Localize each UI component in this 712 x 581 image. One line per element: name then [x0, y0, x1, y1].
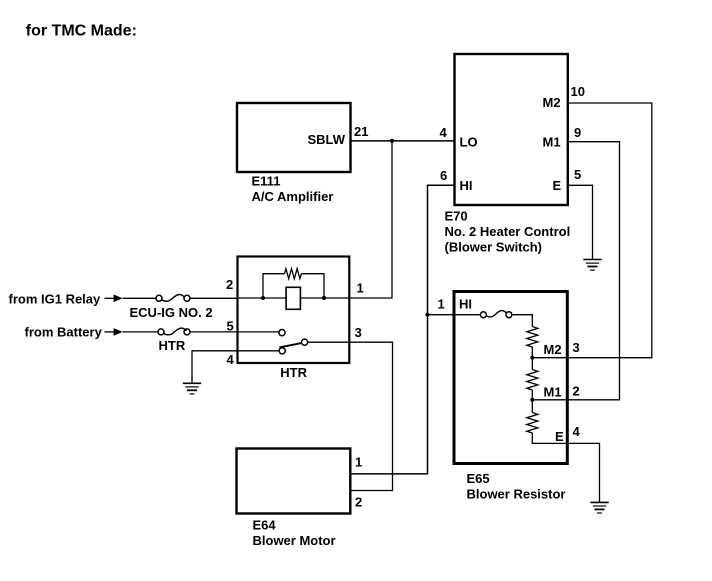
- svg-text:from Battery: from Battery: [25, 324, 103, 339]
- relay coil resistor branch: [263, 274, 324, 298]
- wire relay pin3 to E64 pin2: [308, 342, 393, 490]
- svg-text:SBLW: SBLW: [307, 132, 345, 147]
- svg-text:3: 3: [355, 325, 362, 340]
- svg-text:LO: LO: [460, 134, 478, 149]
- svg-text:Blower Motor: Blower Motor: [253, 533, 336, 548]
- fuse inside E65: [480, 312, 486, 318]
- svg-text:HI: HI: [459, 297, 472, 312]
- resistor R1: [527, 327, 538, 348]
- resistor zigzag in relay: [285, 269, 302, 279]
- connector E65 Blower Resistor box: [454, 292, 567, 464]
- junction node right coil tap: [322, 296, 326, 300]
- ground relay pin4: [183, 383, 201, 394]
- svg-text:HTR: HTR: [159, 338, 186, 353]
- fuse HTR: [158, 329, 164, 335]
- svg-text:ECU-IG NO. 2: ECU-IG NO. 2: [130, 305, 213, 320]
- svg-text:M1: M1: [543, 134, 561, 149]
- svg-text:(Blower Switch): (Blower Switch): [445, 239, 543, 254]
- junction node left coil tap: [261, 296, 265, 300]
- wire SBLW(21) to E70 LO(4): [351, 140, 455, 142]
- svg-text:9: 9: [574, 125, 581, 140]
- svg-text:4: 4: [227, 352, 235, 367]
- svg-text:5: 5: [227, 318, 234, 333]
- ground E70: [583, 260, 601, 271]
- svg-text:M1: M1: [544, 384, 562, 399]
- svg-text:2: 2: [573, 384, 580, 399]
- svg-text:HI: HI: [460, 178, 473, 193]
- svg-text:E111: E111: [252, 174, 281, 189]
- wire M2 tap to pin 3: [532, 357, 567, 359]
- wire E70 pin5 E to ground: [568, 185, 593, 259]
- wire E65 pin4 to ground: [568, 443, 600, 502]
- wire R3 to pin 4 E: [532, 433, 567, 443]
- wire E70 pin6 HI down to E65 HI junction and E64 pin1: [350, 185, 454, 474]
- svg-text:E: E: [555, 429, 564, 444]
- wire fuse to resistor chain: [512, 315, 533, 327]
- svg-text:10: 10: [571, 84, 585, 99]
- connector E111 A/C Amplifier box: [237, 103, 351, 172]
- wire R2 to M1 tap: [531, 390, 533, 413]
- arrow into pin 5 wire: [105, 331, 115, 333]
- svg-text:E70: E70: [445, 208, 468, 223]
- wire arrow to fuse ECU-IG: [123, 297, 156, 299]
- arrow into pin 2 wire: [105, 297, 115, 299]
- junction node M2: [530, 356, 534, 360]
- svg-text:E65: E65: [467, 471, 490, 486]
- svg-text:A/C Amplifier: A/C Amplifier: [252, 189, 334, 204]
- resistor R2: [527, 370, 538, 391]
- svg-text:1: 1: [357, 280, 364, 295]
- svg-text:2: 2: [226, 277, 233, 292]
- wire relay pin4 to ground: [192, 351, 279, 383]
- svg-text:M2: M2: [544, 342, 562, 357]
- svg-text:HTR: HTR: [280, 365, 307, 380]
- svg-text:4: 4: [573, 424, 581, 439]
- svg-text:21: 21: [354, 124, 368, 139]
- wire fuse to relay switch contact pin5: [190, 331, 279, 333]
- svg-text:3: 3: [573, 340, 580, 355]
- wire E70 pin9 M1 to E65 pin2: [568, 142, 620, 400]
- svg-text:for TMC Made:: for TMC Made:: [26, 22, 137, 39]
- ground E65: [590, 502, 608, 513]
- relay contact pin4: [279, 348, 285, 354]
- relay HTR box: [238, 257, 350, 364]
- svg-text:E: E: [553, 178, 562, 193]
- junction node at E65 pin 1: [425, 313, 429, 317]
- svg-text:M2: M2: [543, 95, 561, 110]
- relay contact pin3: [302, 339, 308, 345]
- wire arrow to fuse HTR: [123, 331, 158, 333]
- connector E64 Blower Motor box: [237, 449, 351, 514]
- svg-text:Blower Resistor: Blower Resistor: [467, 487, 566, 502]
- svg-text:1: 1: [355, 455, 362, 470]
- fuse ECU-IG NO. 2: [156, 295, 162, 301]
- connector E70 No.2 Heater Control box: [455, 54, 568, 205]
- svg-text:1: 1: [438, 297, 445, 312]
- svg-text:5: 5: [574, 167, 581, 182]
- relay coil box: [286, 287, 300, 309]
- svg-text:6: 6: [440, 168, 447, 183]
- svg-text:from IG1 Relay: from IG1 Relay: [9, 292, 102, 307]
- svg-text:2: 2: [355, 495, 362, 510]
- svg-text:4: 4: [440, 125, 448, 140]
- wire E70 pin10 M2 to E65 pin3: [568, 103, 652, 358]
- svg-text:E64: E64: [253, 517, 277, 532]
- junction node M1: [530, 398, 534, 402]
- relay contact pin5: [279, 330, 285, 336]
- wire junction down to relay pin 1: [350, 141, 393, 298]
- resistor R3: [527, 413, 538, 434]
- relay through wire pin2 to pin1: [238, 297, 350, 299]
- wire M1 tap to pin 2: [532, 399, 567, 401]
- wire fuse to relay pin 2: [190, 297, 238, 299]
- wire E65 HI junction into fuse: [428, 314, 481, 316]
- relay switch blade: [279, 343, 302, 348]
- wire R1 to M2 tap: [531, 347, 533, 370]
- svg-text:No. 2 Heater Control: No. 2 Heater Control: [445, 224, 571, 239]
- junction node on SBLW wire: [390, 139, 394, 143]
